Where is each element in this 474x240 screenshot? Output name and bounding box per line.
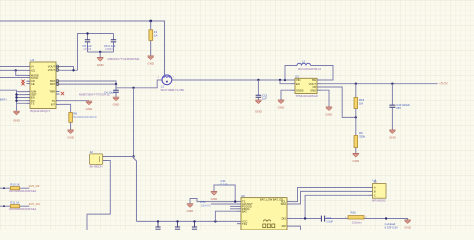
U1 right pin VOUT1 [56,66,60,68]
U3 left pin EN [291,83,295,85]
node output divider branch [355,83,357,85]
wire U1 TS2 to gnd [60,100,90,102]
wire FB to divider [321,87,356,117]
svg-text:INT: INT [51,102,56,106]
wire bottom rail [137,220,238,222]
U3 right pin FB [317,86,321,88]
ground below C15 [255,100,263,114]
ground below R6 [67,130,75,139]
wire jog down to bottom rail [134,157,137,222]
ground below divider [352,154,360,163]
node divider mid [355,116,357,118]
svg-text:BLM18AG601SN1D: BLM18AG601SN1D [73,115,96,119]
svg-text:U3: U3 [295,74,299,78]
U3 right pin GND2 [317,89,321,91]
wire SDA up-right [291,191,369,204]
node rail L2 branch [284,79,286,81]
U1 right pin TMR [56,91,60,93]
svg-text:BAT: BAT [242,209,247,213]
node cap loop bottom center [99,51,101,53]
U1 left pin CE [27,83,31,85]
node bottom rail vcc branch [214,220,216,222]
node TD tie [15,100,17,102]
wire U6 pin2 stub [211,203,237,205]
svg-text:VI: VI [31,65,34,69]
svg-text:GND: GND [255,110,263,114]
svg-text:C16: C16 [326,216,331,220]
svg-text:MPU6050Z: MPU6050Z [372,198,386,202]
svg-text:SD27J0EB-T1-680: SD27J0EB-T1-680 [161,88,185,92]
U6 left pin PROG [237,208,241,210]
wire battery branch down [133,88,135,157]
U6 left pin BAT [237,210,241,212]
svg-text:330k: 330k [359,135,366,139]
svg-text:BQ24210DQCT: BQ24210DQCT [31,109,51,113]
node bottom rail c1 [157,220,159,222]
U6 right pin SDA [287,203,291,205]
svg-text:MGV04024R7M-10: MGV04024R7M-10 [298,67,322,71]
U6 left pin VCC [237,220,241,222]
svg-text:R16: R16 [351,210,357,214]
wire U1 BAT1 [60,81,117,84]
capacitor C16 series [321,216,333,224]
wire L2 loop right [311,66,334,81]
svg-text:100ohm: 100ohm [352,221,362,225]
capacitor C22 partial [192,221,197,229]
U6 left pin OUT [237,203,241,205]
no-connect X on CE pin [21,82,24,85]
svg-text:1M: 1M [359,101,364,105]
svg-text:GNDS: GNDS [296,88,304,92]
U1 left pin IO1 [27,69,31,71]
ground below U1 left [13,111,21,122]
U3 left pin GND [291,89,295,91]
U1 right pin BAT1 [56,80,60,82]
U1 left pin SYNC [27,77,31,79]
wire C31 bracket [214,185,235,202]
wire J2 pin1 to branch [107,156,134,158]
wire U1 VOUT1 to loop [60,67,74,71]
svg-text:U1: U1 [31,58,35,62]
U1 left pin TD [27,100,31,102]
U1 left pin ILIM [27,91,31,93]
svg-text:CRCW060310K0FKEA: CRCW060310K0FKEA [9,189,37,193]
svg-text:GND: GND [86,107,94,111]
U4 pin 4 [369,194,373,196]
svg-text:C+Farad: C+Farad [385,222,396,226]
svg-text:U4: U4 [373,179,377,183]
U6 right pin SCL [287,201,291,203]
U6 left pin TS [237,201,241,203]
U3 right pin SW [317,79,321,81]
svg-text:VOUT: VOUT [48,68,56,72]
ground below C10 [389,130,397,139]
svg-text:SW: SW [312,78,317,82]
wire DIS rail right [291,218,405,220]
wire gnd stub cap loop [99,52,101,57]
svg-text:BAT+: BAT+ [0,98,7,102]
battery J2 [90,150,107,169]
svg-text:GND: GND [278,105,286,109]
svg-text:MMBT3904T-TP/3GA-2L: MMBT3904T-TP/3GA-2L [79,92,110,96]
IC U3 boost [291,74,321,97]
capacitor C4 [104,84,119,97]
wire SYNC from left edge [0,77,27,79]
inductor L1 plug [158,75,184,92]
svg-text:0.1uF: 0.1uF [221,182,228,186]
svg-text:INP: INP [282,224,287,228]
wire GND2 jog to U6 pin1 [190,199,237,204]
svg-text:TPS61021ADSGR: TPS61021ADSGR [296,94,318,98]
svg-text:GND: GND [404,226,412,230]
U1 left pin TS [27,102,31,104]
svg-text:GND: GND [211,197,219,201]
wire U1 INT to R6 [60,104,71,112]
resistor R16 [345,210,368,224]
U1 right pin INT [56,103,60,105]
wire J2 pin2 down-left route [87,161,110,231]
svg-text:GND: GND [147,62,155,66]
wire L2 loop left [285,66,297,81]
U3 left pin VIN [291,79,295,81]
wire U1 IO1 from left edge [0,69,27,71]
node EN tie [15,96,17,98]
ground below C4 [113,97,121,106]
wire U1 VI from left edge [0,66,27,68]
capacitor C20 partial [155,221,160,229]
U1 right pin VOUT2 [56,69,60,71]
svg-text:2V5_SN: 2V5_SN [29,202,40,206]
node cap C5 top [86,32,88,34]
ground below fuse F1 [147,56,155,66]
svg-text:GND: GND [67,135,75,139]
svg-text:1uF: 1uF [262,97,267,101]
ground at TS2 wire end [86,101,94,111]
wire top power rail [0,21,165,76]
wire main rail L1 to U3 [171,79,291,81]
no-connect X on PG pin [61,92,64,95]
wire U3 GND2 right [321,90,329,106]
svg-text:GND: GND [113,103,121,107]
wire cap loop top [88,33,114,35]
svg-text:TS: TS [52,99,56,103]
svg-text:BK-885CH: BK-885CH [90,165,103,169]
svg-text:GND: GND [97,63,105,67]
node output cap branch [391,83,393,85]
wire cap loop bottom [88,51,114,53]
svg-text:GND: GND [310,88,316,92]
ground cluster GND1 [211,192,219,201]
svg-text:L2: L2 [302,60,306,64]
U1 right pin PG [56,93,60,95]
J2 pin 2 [103,160,107,162]
wire SCL up-right [291,188,369,202]
node BAT join [115,83,117,85]
U6 right pin DIS [287,217,291,219]
svg-text:GND: GND [13,119,21,123]
wire output rail [321,83,438,85]
svg-text:VIN: VIN [296,78,300,82]
wire INT up-right [305,195,368,218]
svg-text:TMR: TMR [49,90,55,94]
capacitor C6 [104,34,116,53]
wire cap loop left leg [78,34,88,71]
capacitor C21 partial [175,221,180,229]
U1 left pin ISET [27,94,31,96]
ground right rail end [404,219,412,230]
wire MODE tie [16,70,27,75]
node ISET tie [15,93,17,95]
U4 pin 2 [369,187,373,189]
U6 left pin TS3 [237,223,241,225]
U1 left pin EN [27,97,31,99]
U6 left pin PGOOD [237,205,241,207]
wire U6 pin3 stub [230,205,237,207]
resistor R11 [0,201,37,212]
U6 internal glyphs [264,220,271,222]
ground U3 left [278,100,286,109]
IC U4 sensor [369,179,387,203]
U3 right pin VOUT [317,83,321,85]
fuse F1 [149,21,158,56]
svg-text:2V5_RF: 2V5_RF [29,184,40,188]
U4 pin 3 [369,190,373,192]
U1 left pin CD [27,80,31,82]
U1 right pin TS2 [56,100,60,102]
wire EN jog [280,80,291,84]
capacitor C5 [83,34,92,53]
inductor L2 [297,60,322,71]
svg-text:C0603: C0603 [84,47,92,51]
svg-text:SDA: SDA [281,202,287,206]
wire INP down [291,226,301,230]
svg-text:TS: TS [31,101,35,105]
resistor R9 [354,117,366,153]
U1 left pin VI [27,66,31,68]
node battery top join [132,155,134,157]
resistor R6 [69,112,97,130]
U1 left pin MODE [27,74,31,76]
wire U1 BAT2 [60,83,117,85]
svg-text:+5.0V: +5.0V [439,82,449,86]
svg-text:GND: GND [326,112,334,116]
svg-text:R11 1K: R11 1K [10,201,19,205]
svg-text:DIS: DIS [282,217,287,221]
svg-text:10k/NTC: 10k/NTC [201,203,212,207]
node bottom rail c2 [176,220,178,222]
ground below cap loop [97,58,105,67]
node BAT rail branch [132,87,134,89]
wire BAT rail to inductor [116,80,162,88]
svg-text:BAT_LOW BAT_GD: BAT_LOW BAT_GD [260,198,283,202]
IC U6 gauge [237,194,301,230]
svg-text:VOUT: VOUT [48,65,56,69]
svg-text:GND: GND [187,209,195,213]
svg-text:GND: GND [389,135,397,139]
svg-text:BAT: BAT [50,82,55,86]
svg-text:IO1: IO1 [31,68,36,72]
svg-text:TS3: TS3 [242,222,247,226]
node DIS branch [304,217,306,219]
node bracket join [234,200,236,202]
svg-text:U6: U6 [241,194,245,198]
svg-text:CRCW060310K0FKEA: CRCW060310K0FKEA [9,207,37,211]
IC U1 charger [27,58,60,113]
ground U3 right [326,107,334,116]
wire U6 pin4 stub [230,208,237,210]
no-connect X on CD pin [21,80,24,83]
svg-text:GND: GND [352,159,360,163]
J2 pin 1 [103,156,107,158]
svg-text:0.33F 5.5V: 0.33F 5.5V [385,225,398,229]
wire U3 GND left [281,90,291,99]
svg-text:CE: CE [31,82,35,86]
resistor R15 [354,84,365,118]
svg-text:25V: 25V [396,106,401,110]
node rail EN branch [279,79,281,81]
wire ILIM bus from left edge [0,90,27,111]
wire U1 VOUT2 to cap loop leg [60,69,78,71]
capacitor C15 [256,80,268,101]
node rail C15 branch [257,79,259,81]
svg-text:1.0uF: 1.0uF [326,219,333,223]
node bottom rail c3 [193,220,195,222]
capacitor C10 [389,84,410,130]
svg-text:MMSZ4V7T1G/MSD0SZL: MMSZ4V7T1G/MSD0SZL [108,57,141,61]
node VOUT join [72,69,74,71]
svg-text:C0603: C0603 [105,47,113,51]
U6 right pin INP [287,225,291,227]
U1 right pin BAT2 [56,83,60,85]
svg-text:R10 1K: R10 1K [10,183,19,187]
node on IO1 wire [15,69,17,71]
wire vcc branch up [215,211,237,221]
node junction on top rail [149,20,152,23]
svg-text:C: C [374,194,376,197]
resistor R10 [0,183,37,194]
svg-text:EN: EN [296,82,300,86]
svg-text:1A: 1A [154,34,158,38]
svg-text:J2: J2 [90,150,94,154]
ground cluster GND2 [187,204,195,213]
node supercap branch [385,217,387,219]
